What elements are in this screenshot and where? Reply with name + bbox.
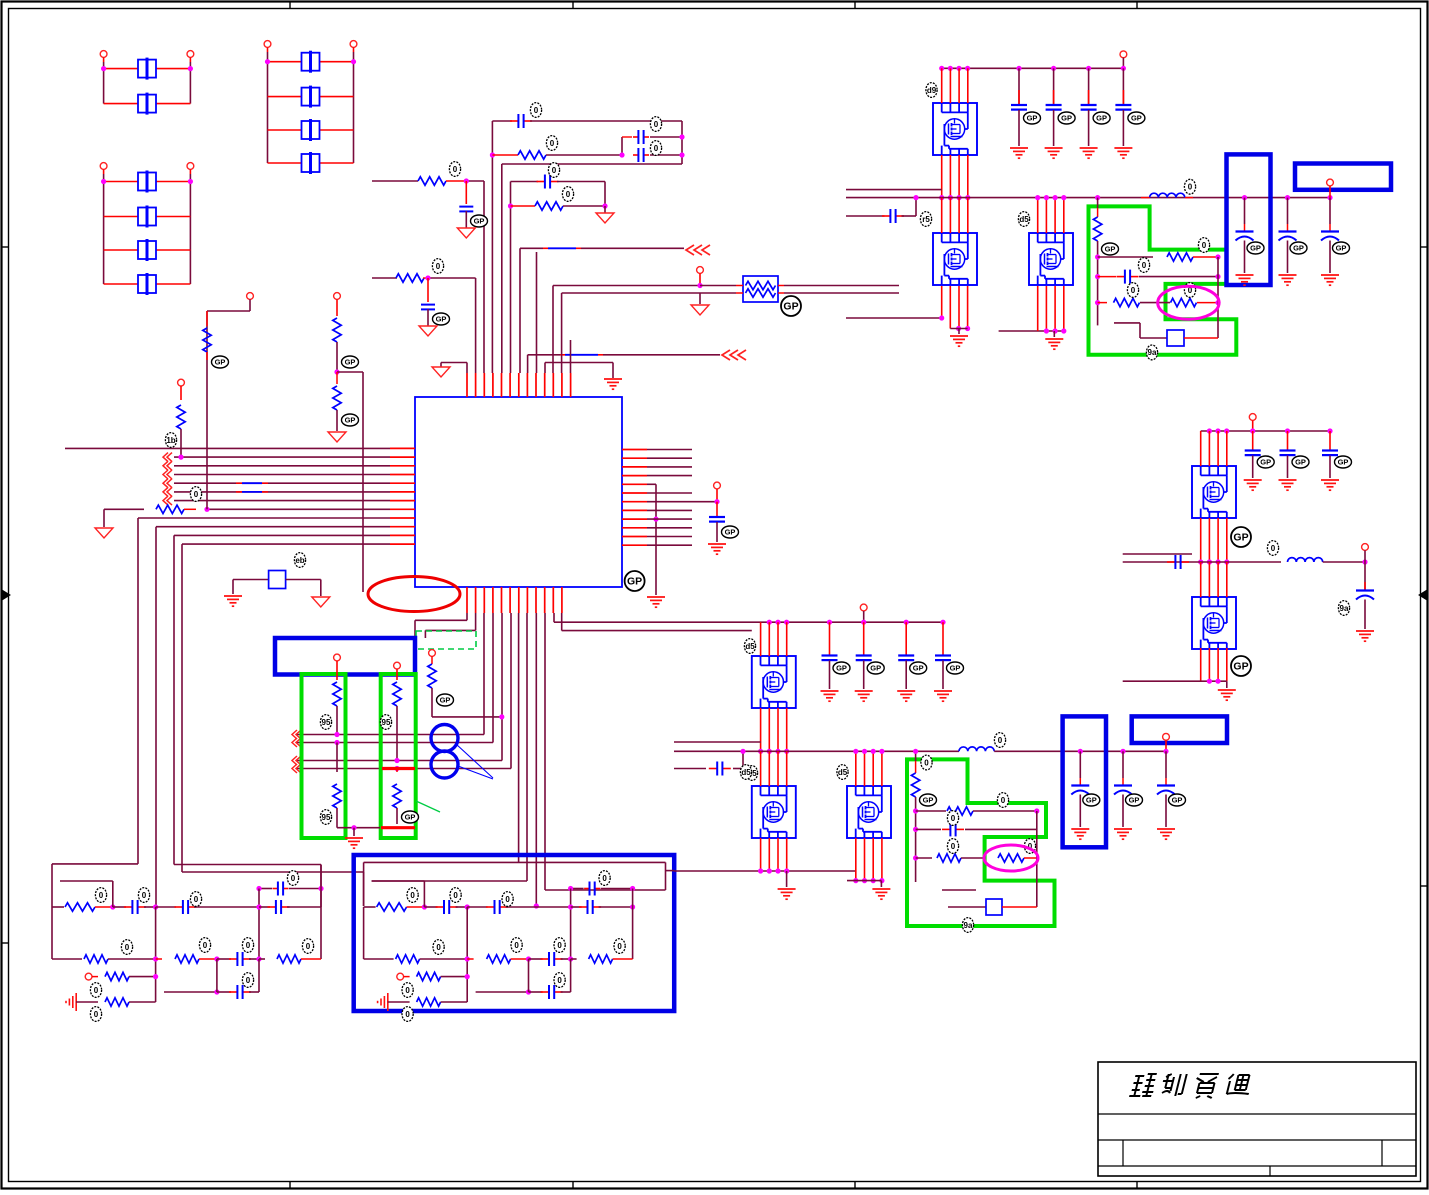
svg-text:GP: GP [1233,532,1248,544]
svg-text:0: 0 [142,891,147,900]
svg-text:GP: GP [1338,458,1349,467]
svg-text:0: 0 [924,758,929,767]
svg-text:0: 0 [1271,544,1276,553]
svg-text:95: 95 [382,718,391,727]
svg-text:0: 0 [453,165,458,174]
svg-text:0: 0 [405,986,410,995]
svg-text:0: 0 [436,943,441,952]
svg-text:GP: GP [1105,245,1116,254]
svg-text:0: 0 [654,144,659,153]
svg-text:GP: GP [405,813,416,822]
svg-text:9a: 9a [1148,348,1157,357]
svg-text:GP: GP [627,576,642,588]
svg-text:GP: GP [783,301,798,313]
svg-text:0: 0 [436,262,441,271]
svg-text:0: 0 [94,986,99,995]
svg-text:GP: GP [1172,796,1183,805]
svg-text:d5: d5 [745,642,755,651]
svg-text:GP: GP [1131,114,1142,123]
svg-text:0: 0 [453,891,458,900]
svg-text:1b: 1b [166,436,175,445]
svg-text:0: 0 [246,941,251,950]
svg-text:GP: GP [345,416,356,425]
svg-text:0: 0 [1188,183,1193,192]
svg-text:95: 95 [322,718,331,727]
svg-text:0: 0 [410,891,415,900]
svg-text:0: 0 [99,891,104,900]
svg-text:0: 0 [654,120,659,129]
svg-text:GP: GP [870,664,881,673]
svg-text:GP: GP [436,315,447,324]
svg-text:0: 0 [291,874,296,883]
svg-text:d5: d5 [741,768,751,777]
svg-text:0: 0 [566,190,571,199]
svg-text:GP: GP [1293,244,1304,253]
svg-text:9a: 9a [1340,604,1349,613]
svg-text:9a: 9a [964,921,973,930]
svg-text:GP: GP [1096,114,1107,123]
svg-text:0: 0 [405,1010,410,1019]
svg-text:0: 0 [194,895,199,904]
svg-text:d5: d5 [1019,215,1029,224]
svg-text:0: 0 [557,976,562,985]
svg-text:GP: GP [725,528,736,537]
svg-text:0: 0 [998,736,1003,745]
svg-text:0: 0 [306,942,311,951]
svg-text:GP: GP [1129,796,1140,805]
svg-text:0: 0 [557,941,562,950]
svg-text:0: 0 [1142,261,1147,270]
svg-text:GP: GP [1336,244,1347,253]
svg-text:0: 0 [246,976,251,985]
svg-text:GP: GP [474,217,485,226]
svg-text:GP: GP [913,664,924,673]
svg-text:GP: GP [836,664,847,673]
svg-text:eb: eb [295,556,304,565]
svg-text:GP: GP [923,796,934,805]
svg-text:GP: GP [1233,661,1248,673]
svg-text:0: 0 [552,166,557,175]
svg-text:0: 0 [550,139,555,148]
svg-text:0: 0 [203,941,208,950]
svg-text:0: 0 [505,895,510,904]
svg-text:GP: GP [1061,114,1072,123]
svg-text:0: 0 [194,490,199,499]
svg-text:0: 0 [617,942,622,951]
svg-text:0: 0 [94,1010,99,1019]
svg-text:GP: GP [215,358,226,367]
svg-text:GP: GP [1295,458,1306,467]
svg-text:0: 0 [951,814,956,823]
svg-text:0: 0 [1131,286,1136,295]
svg-text:95: 95 [322,813,331,822]
svg-text:GP: GP [1027,114,1038,123]
svg-text:GP: GP [345,358,356,367]
svg-text:GP: GP [1260,458,1271,467]
svg-text:0: 0 [514,941,519,950]
svg-text:GP: GP [440,696,451,705]
svg-text:d9: d9 [927,86,937,95]
svg-text:0: 0 [602,874,607,883]
svg-text:r5: r5 [922,215,930,224]
svg-text:0: 0 [125,943,130,952]
svg-text:0: 0 [1202,241,1207,250]
svg-text:d5: d5 [838,768,848,777]
svg-text:GP: GP [1250,244,1261,253]
svg-text:GP: GP [950,664,961,673]
svg-text:GP: GP [1086,796,1097,805]
svg-text:0: 0 [951,842,956,851]
svg-text:0: 0 [1001,796,1006,805]
svg-text:0: 0 [534,106,539,115]
